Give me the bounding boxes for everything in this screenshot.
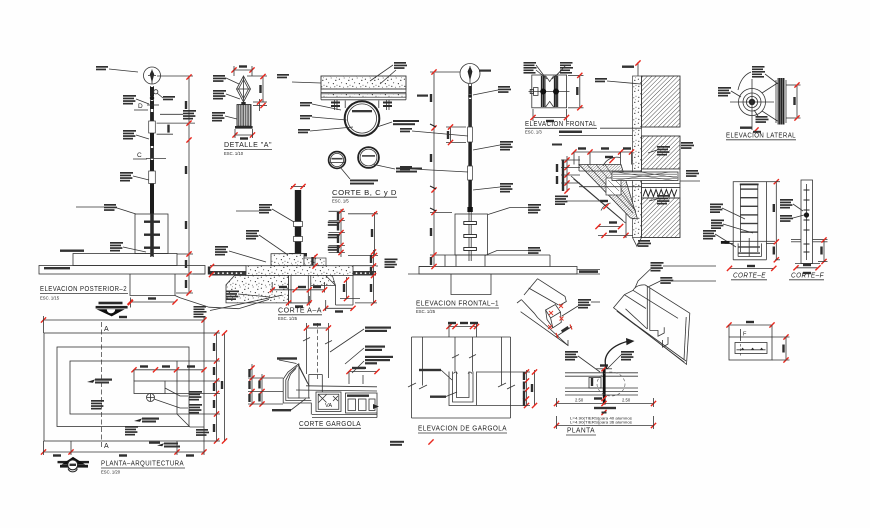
center column	[452, 337, 476, 372]
bottom dim	[232, 129, 255, 140]
gargoyle spout	[283, 364, 311, 415]
patio smudge	[149, 442, 160, 444]
title CORTE B C y D	[332, 188, 397, 204]
left wing stipple	[226, 276, 289, 303]
middle rectangle	[57, 347, 189, 427]
labels bottom	[637, 240, 651, 247]
foundation tier 1	[73, 254, 177, 266]
svg-text:ESC. 1/25: ESC. 1/25	[278, 316, 298, 321]
title DETALLE A	[224, 140, 272, 156]
label stack right 3	[473, 183, 513, 193]
left wall lines	[408, 337, 427, 418]
svg-text:ELEVACION DE GARGOLA: ELEVACION DE GARGOLA	[418, 424, 507, 433]
corte F right dim 40	[818, 237, 828, 264]
svg-text:A: A	[104, 326, 109, 333]
label pipe left 3	[298, 127, 353, 133]
label stack diamond top	[213, 75, 239, 84]
dim row above box	[131, 365, 206, 381]
finial circle	[460, 64, 480, 84]
iso beam red dims	[548, 304, 572, 338]
leader text right 3	[352, 356, 393, 373]
right dim	[786, 82, 801, 120]
corner diagonal	[177, 414, 204, 427]
corte E labels	[710, 204, 745, 220]
bench small dim	[311, 254, 317, 269]
left stack with long leader	[555, 196, 601, 206]
girder plan lines	[565, 373, 638, 395]
title CORTE F	[789, 271, 824, 280]
title PLANTA-ARQUITECTURA	[101, 459, 185, 475]
title ELEVACION LATERAL	[726, 131, 796, 140]
svg-text:D: D	[138, 103, 143, 110]
svg-text:PLANTA: PLANTA	[567, 426, 595, 435]
right wall lines	[498, 337, 515, 418]
label stack far left	[215, 246, 266, 262]
sleeve stack at dim	[160, 110, 196, 120]
section line A-A	[102, 322, 110, 450]
splice bar	[603, 369, 606, 405]
outer rectangle	[44, 333, 204, 441]
iso channel beam left	[517, 279, 568, 346]
leader polyline to corte gargola	[180, 298, 269, 309]
right vertical dim	[355, 249, 378, 305]
label stack diamond mid	[213, 90, 240, 100]
svg-text:ELEVACION LATERAL: ELEVACION LATERAL	[726, 131, 796, 140]
slope arrow 1	[87, 379, 112, 384]
title ELEVACION DE GARGOLA	[418, 424, 507, 434]
svg-text:A: A	[104, 443, 109, 450]
housing box	[532, 75, 567, 108]
side bar	[776, 78, 786, 125]
small dim 20 right of pole	[157, 121, 195, 135]
axle	[529, 88, 570, 96]
stucco strip	[633, 76, 642, 247]
title ELEVACION POSTERIOR-2	[40, 284, 128, 301]
curved arrow	[605, 338, 634, 369]
beam horizontal lines	[579, 171, 642, 187]
bottom line	[412, 417, 511, 419]
iso clamp box	[546, 305, 562, 328]
svg-text:ELEVACION POSTERIOR–2: ELEVACION POSTERIOR–2	[40, 284, 127, 293]
line under wall top	[600, 127, 642, 129]
drain circle	[147, 394, 155, 402]
label stack pedestal	[485, 247, 541, 256]
central pit	[289, 276, 311, 303]
F marker	[741, 329, 748, 356]
label wall top	[595, 78, 641, 84]
foundation bench stipple	[246, 254, 353, 276]
top dim 3.00	[41, 316, 207, 333]
corte E outer	[725, 182, 776, 260]
pole mast	[467, 84, 472, 212]
sheave circles	[739, 89, 766, 116]
labels right of wall 4	[649, 195, 670, 205]
svg-text:ESC. 1/3: ESC. 1/3	[525, 130, 542, 135]
label 0.35 left	[419, 369, 452, 380]
corte E inner trough	[738, 243, 761, 256]
iso wedge labels	[635, 262, 716, 288]
top slab line	[412, 336, 511, 338]
labels right of wall 2	[681, 142, 694, 149]
trough U	[449, 372, 477, 406]
angle arc 45	[600, 200, 611, 211]
joint tick D level	[147, 104, 159, 106]
stacks right of box	[189, 391, 202, 414]
label stack right 2	[473, 141, 513, 151]
pipe with strap	[345, 101, 380, 136]
wall hatched block mid	[642, 136, 681, 169]
center stack	[91, 400, 104, 410]
main vertical dimension line	[157, 74, 205, 295]
dim ladder	[328, 209, 345, 257]
svg-text:ESC. 1/20: ESC. 1/20	[101, 470, 121, 475]
logo stamp	[58, 457, 90, 472]
npt arrow smudge	[157, 443, 180, 448]
dim 23 vertical	[340, 277, 360, 301]
aligerado boxes	[346, 393, 380, 413]
leader small circle	[340, 167, 350, 179]
label stack pole mid	[123, 130, 149, 140]
foundation tier 2	[39, 266, 205, 275]
svg-text:CORTE A–A: CORTE A–A	[278, 306, 322, 315]
angle arc 60	[603, 156, 620, 166]
label pipe right	[377, 120, 419, 127]
top label stacks	[524, 62, 548, 79]
title CORTE A-A	[278, 306, 322, 322]
right dim line	[165, 330, 220, 443]
pipe section D	[358, 147, 379, 168]
label stack right 1	[473, 86, 511, 95]
zigzag key band	[642, 188, 681, 199]
pit	[451, 274, 491, 295]
splice channel box	[589, 378, 601, 389]
svg-text:CORTE–E: CORTE–E	[733, 271, 766, 280]
right dim .40	[247, 74, 267, 102]
label stack left 2	[400, 166, 468, 172]
right dim set	[477, 369, 537, 408]
inner rectangle	[70, 361, 177, 414]
iso wedge right	[614, 285, 690, 365]
stack below posterior base	[194, 306, 207, 318]
leader to elevation marker	[175, 296, 180, 298]
svg-text:DETALLE "A": DETALLE "A"	[224, 140, 272, 149]
label finial	[96, 66, 138, 72]
corte F column	[791, 180, 828, 264]
label right	[396, 168, 422, 173]
label stacks	[565, 351, 600, 372]
left dim line	[419, 69, 460, 269]
wall hatched block lower	[642, 198, 681, 238]
pedestal tier	[445, 255, 550, 267]
label 3.08 bottom left	[272, 399, 306, 412]
1cm diam note	[594, 407, 616, 415]
leader text top right 1	[330, 327, 391, 353]
label finial	[479, 70, 491, 72]
dim row pit	[286, 296, 312, 308]
leader text right 2	[345, 346, 385, 365]
title CORTE GARGOLA	[299, 419, 361, 428]
outer plate	[729, 337, 772, 360]
left edge ticks	[208, 264, 214, 277]
label stack left mid	[246, 230, 288, 255]
svg-text:ESC. 1/10: ESC. 1/10	[224, 151, 244, 156]
corte F labels	[780, 199, 803, 211]
npt line mid	[552, 131, 633, 146]
elevation marker symbol	[96, 298, 134, 317]
corner stack	[196, 429, 209, 436]
wood beam in channel	[612, 169, 680, 188]
label stack base top, long leader	[76, 204, 136, 214]
right dim	[772, 334, 790, 362]
corte F rebar center	[804, 184, 810, 260]
label 5/8 top left	[277, 357, 309, 386]
npt label tier2	[44, 267, 70, 269]
long diagonal leader	[210, 295, 282, 310]
base box	[135, 214, 168, 254]
outer dim right	[348, 211, 378, 258]
svg-text:2.50: 2.50	[575, 398, 584, 403]
left ladder dims	[556, 156, 580, 194]
tangent leaders to bar	[762, 83, 778, 121]
drain channel	[299, 364, 322, 399]
label slab top right	[370, 62, 407, 84]
VA box	[316, 392, 341, 412]
top dim 84	[726, 321, 774, 337]
corte E ladder	[739, 184, 761, 257]
dim row 2.50 2.50	[554, 398, 656, 408]
slab beam lines	[296, 386, 377, 391]
corte E right dim	[766, 179, 780, 262]
top dims	[446, 322, 479, 337]
iso beam label stack	[562, 299, 600, 316]
top cap tick	[622, 60, 641, 76]
U notch bottom	[546, 101, 554, 107]
disc smudge	[740, 127, 761, 133]
svg-text:F: F	[743, 332, 747, 338]
small cross dim	[253, 99, 267, 111]
diamond finial	[237, 76, 251, 102]
top label stack	[738, 66, 778, 90]
hatched post	[235, 105, 253, 129]
svg-text:CORTE B, C y D: CORTE B, C y D	[332, 188, 397, 197]
label stack box	[488, 204, 541, 215]
anchor plate	[289, 253, 307, 257]
labels right of wall 3	[680, 170, 700, 181]
svg-text:ELEVACION FRONTAL: ELEVACION FRONTAL	[525, 119, 597, 128]
note smudge right of dim	[390, 439, 434, 445]
title PLANTA	[566, 426, 596, 436]
dashed circle	[597, 372, 625, 396]
left bolt hanger	[331, 100, 340, 110]
letter D	[134, 103, 148, 110]
svg-text:2.50: 2.50	[622, 398, 631, 403]
break marks	[303, 338, 332, 345]
bottom stack	[125, 426, 138, 436]
concrete slab	[321, 76, 406, 100]
inner slot	[735, 343, 767, 354]
label stack left upper	[236, 204, 294, 222]
label pipe left 1	[300, 102, 341, 110]
title ELEVACION FRONTAL-1	[416, 299, 499, 315]
svg-text:CORTE GARGOLA: CORTE GARGOLA	[299, 419, 361, 428]
pipe section C	[329, 152, 346, 169]
leaders box to stacks	[154, 388, 188, 408]
label 3x1/4	[430, 392, 457, 398]
letter C	[133, 152, 166, 159]
dim 3 1/2	[346, 367, 379, 384]
top dim row	[571, 147, 634, 164]
pit dim	[127, 297, 177, 304]
base box	[455, 214, 488, 255]
corte F bottom dim	[793, 264, 820, 271]
right stipple + chamfer	[311, 276, 336, 286]
outer right dim	[221, 330, 227, 443]
left lower stack	[226, 291, 270, 301]
label stack anchor	[110, 242, 146, 252]
L= notes + dim	[554, 416, 656, 430]
left label stack	[718, 87, 741, 97]
ground band	[408, 267, 600, 275]
finial circle	[144, 67, 161, 84]
svg-text:ESC. 1/5: ESC. 1/5	[332, 199, 349, 204]
dim row 60-60-60	[270, 282, 328, 293]
npta smudge	[417, 95, 428, 97]
label below	[350, 180, 378, 185]
lower dims	[595, 213, 633, 238]
title ELEVACION FRONTAL	[525, 119, 597, 135]
sheave bar right	[554, 76, 559, 107]
corte E bottom dim	[727, 265, 777, 271]
center cross	[730, 79, 774, 130]
diagonal brace wedge	[579, 165, 638, 220]
right bolt hanger	[383, 100, 392, 110]
svg-text:VA: VA	[325, 403, 332, 409]
parapet wall lines	[306, 323, 328, 380]
pole inside box	[464, 212, 477, 261]
label stack post	[212, 112, 237, 122]
label stack right of pole top	[154, 90, 175, 101]
label stack right	[385, 259, 398, 269]
bottom label stack	[754, 110, 769, 123]
label stack pole upper	[123, 95, 149, 105]
leader big circle	[374, 165, 395, 170]
V notch top	[546, 76, 554, 82]
bottom dim row	[41, 441, 207, 457]
svg-text:ELEVACION FRONTAL–1: ELEVACION FRONTAL–1	[416, 299, 499, 308]
label stack left 1	[400, 128, 468, 136]
neck	[241, 102, 245, 105]
svg-text:L=4.90(TIERS)para 36 alumnos: L=4.90(TIERS)para 36 alumnos	[570, 420, 632, 425]
svg-text:ESC. 1/15: ESC. 1/15	[40, 296, 60, 301]
small dim 20 pole sleeve	[446, 124, 466, 145]
npt smudge right	[579, 270, 598, 273]
npt label tier1	[60, 250, 84, 252]
sheave bar left	[541, 76, 546, 107]
left slab strip	[210, 266, 246, 276]
labels right of wall 1	[648, 146, 670, 156]
top dim 60	[231, 65, 254, 76]
bottom dim	[530, 109, 569, 122]
right slab strip	[353, 266, 376, 276]
slope arrow 2	[134, 418, 159, 423]
svg-text:ESC. 1/25: ESC. 1/25	[416, 309, 436, 314]
pole mast	[149, 86, 156, 257]
wall hatched block upper	[642, 76, 681, 127]
clamp white box	[606, 178, 621, 195]
label pipe left 2	[300, 115, 347, 120]
label stack pole sleeve	[120, 172, 149, 182]
thin parallel strip	[571, 176, 626, 223]
louver box	[134, 381, 165, 394]
svg-text:PLANTA–ARQUITECTURA: PLANTA–ARQUITECTURA	[101, 459, 184, 468]
top dim 61	[304, 323, 331, 330]
left dim set	[248, 364, 283, 407]
svg-text:C: C	[137, 152, 142, 159]
right deep pit	[336, 276, 354, 306]
leader slab left	[292, 82, 321, 83]
right dim	[568, 73, 584, 111]
small dims at bar	[591, 364, 612, 401]
title CORTE E	[731, 271, 767, 280]
far right label	[277, 74, 289, 78]
bottom slab lines	[312, 413, 377, 418]
pit below foundation	[130, 274, 175, 296]
embedded pole	[290, 184, 305, 256]
dim 55 right pit	[323, 300, 356, 313]
